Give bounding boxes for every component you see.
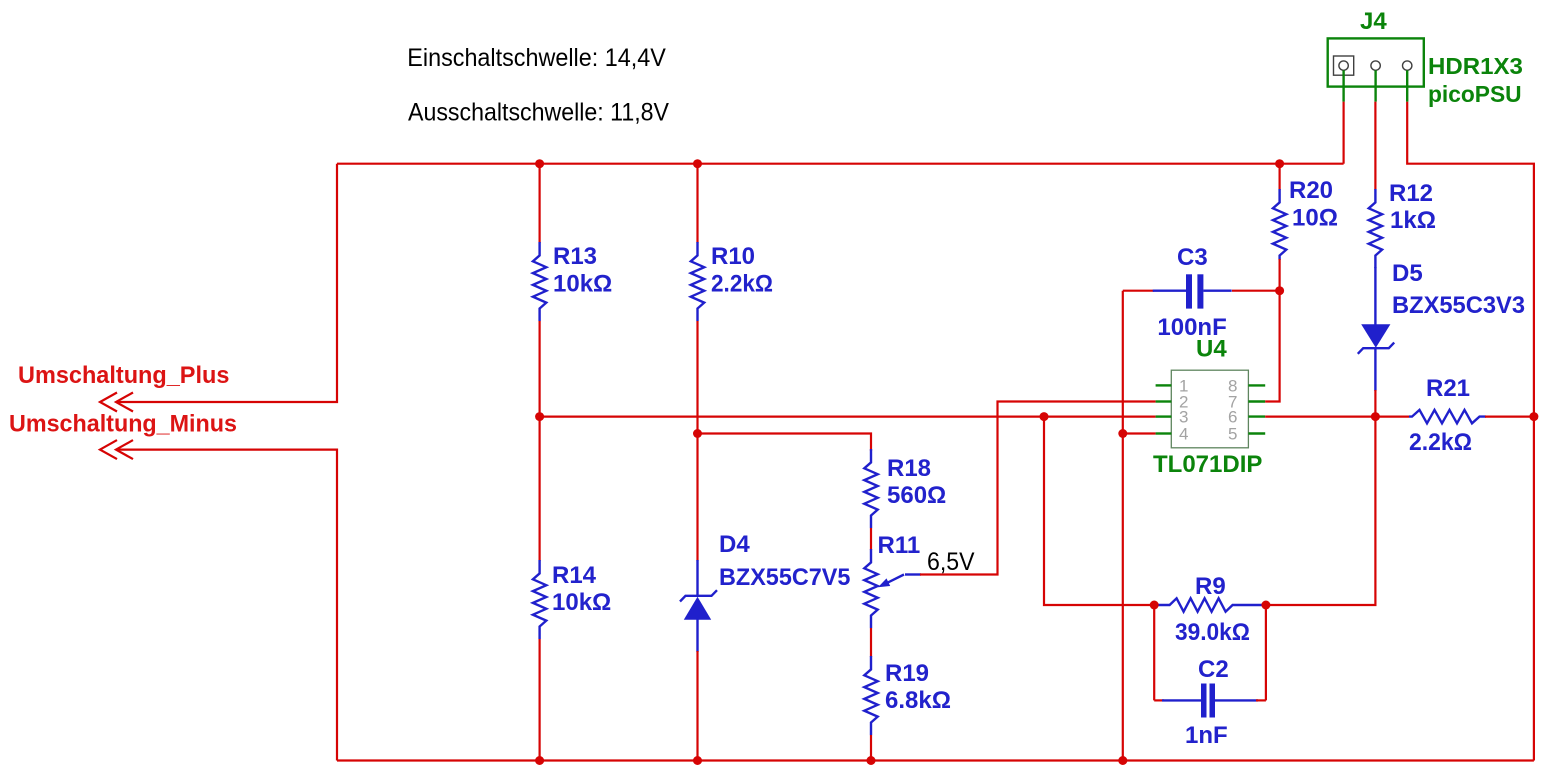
- svg-text:R19: R19: [885, 660, 929, 687]
- wire R21 left lead: [1375, 416, 1409, 418]
- pin 3: [1403, 61, 1412, 70]
- wire D5 to junction: [1374, 390, 1376, 417]
- wire J4 pin1 down: [1342, 102, 1344, 164]
- node pin3 branch: [1040, 412, 1049, 421]
- svg-text:D5: D5: [1392, 260, 1423, 287]
- wire pin3 junction to R9: [1044, 417, 1154, 605]
- pin 5: [1248, 432, 1265, 434]
- node bottom rail / R14: [535, 756, 544, 765]
- connector J4: [1328, 8, 1523, 107]
- node pin4: [1118, 429, 1127, 438]
- diode D4 zener: [680, 531, 850, 652]
- svg-text:2.2kΩ: 2.2kΩ: [1409, 429, 1472, 456]
- wire bottom rail: [337, 759, 1534, 761]
- svg-text:4: 4: [1179, 425, 1188, 444]
- resistor R20: [1273, 177, 1338, 260]
- wire C3 left vertical: [1122, 291, 1124, 761]
- wire R10 to D4: [696, 321, 698, 561]
- svg-text:R9: R9: [1195, 573, 1226, 600]
- svg-text:Umschaltung_Minus: Umschaltung_Minus: [9, 411, 237, 438]
- node Umschaltung_Plus: [18, 164, 337, 412]
- svg-text:picoPSU: picoPSU: [1428, 81, 1522, 107]
- capacitor C3: [1123, 244, 1280, 341]
- pin 3: [1156, 415, 1172, 417]
- wire R18 to R11: [870, 528, 872, 550]
- svg-text:C3: C3: [1177, 244, 1208, 271]
- resistor R14: [533, 560, 611, 639]
- wire R21 right lead: [1485, 416, 1534, 418]
- node bottom rail / R19: [867, 756, 876, 765]
- node R9 right: [1261, 601, 1270, 610]
- svg-text:R12: R12: [1389, 180, 1433, 207]
- pin 1: [1156, 384, 1172, 386]
- node bottom rail / C3 column: [1118, 756, 1127, 765]
- node top rail / R20: [1275, 159, 1284, 168]
- svg-text:Ausschaltschwelle: 11,8V: Ausschaltschwelle: 11,8V: [408, 99, 669, 127]
- node R21 right: [1529, 412, 1538, 421]
- wire Plus flag chevrons: [100, 393, 117, 412]
- pin 2: [1371, 61, 1380, 70]
- node R9 left: [1150, 601, 1159, 610]
- svg-text:2.2kΩ: 2.2kΩ: [711, 271, 773, 298]
- svg-text:10Ω: 10Ω: [1292, 205, 1338, 232]
- capacitor C2: [1154, 656, 1266, 749]
- wire R13 column top: [538, 164, 540, 243]
- node bottom rail / D4: [693, 756, 702, 765]
- wire D4-column to R18: [698, 434, 872, 452]
- wire Plus horizontal: [116, 164, 337, 402]
- svg-text:6.8kΩ: 6.8kΩ: [885, 687, 951, 714]
- svg-text:Einschaltschwelle: 14,4V: Einschaltschwelle: 14,4V: [407, 44, 666, 72]
- svg-text:6,5V: 6,5V: [927, 548, 975, 576]
- wire R13 to mid rail: [538, 321, 540, 417]
- svg-text:Umschaltung_Plus: Umschaltung_Plus: [18, 362, 229, 389]
- resistor R18: [864, 449, 946, 528]
- wire U4 pin7 to C3 node: [1265, 291, 1279, 402]
- resistor R9: [1154, 573, 1263, 646]
- resistor R10: [691, 242, 773, 321]
- wire Minus horizontal: [116, 450, 337, 761]
- node D4 / R18: [693, 429, 702, 438]
- wire Minus flag chevrons: [100, 440, 117, 459]
- wire R9 right node down: [1265, 605, 1267, 700]
- resistor R21: [1409, 375, 1486, 456]
- wire R9 right to D5 column: [1266, 417, 1376, 605]
- svg-text:39.0kΩ: 39.0kΩ: [1175, 619, 1250, 646]
- wire pin4 link: [1123, 432, 1156, 434]
- node D5 / R21 / R9: [1371, 412, 1380, 421]
- svg-text:R13: R13: [553, 243, 597, 270]
- wire wiper to U4 pin2: [920, 402, 1156, 575]
- wire right vertical: [1407, 102, 1534, 761]
- svg-text:TL071DIP: TL071DIP: [1153, 451, 1262, 478]
- wire R19 to bottom rail: [870, 735, 872, 761]
- svg-text:5: 5: [1228, 425, 1237, 444]
- wire D4 to bottom rail: [696, 651, 698, 761]
- svg-text:1kΩ: 1kΩ: [1390, 207, 1436, 234]
- resistor R19: [864, 656, 951, 735]
- pin 4: [1156, 432, 1172, 434]
- node top rail / R13: [535, 159, 544, 168]
- resistor R13: [533, 242, 612, 321]
- svg-text:R14: R14: [552, 562, 597, 589]
- wire R14 column top: [538, 417, 540, 561]
- wire R20 top: [1278, 164, 1280, 190]
- svg-text:R21: R21: [1426, 375, 1470, 402]
- svg-text:1nF: 1nF: [1185, 722, 1228, 749]
- svg-text:R18: R18: [887, 455, 931, 482]
- svg-text:10kΩ: 10kΩ: [552, 589, 611, 616]
- node Umschaltung_Minus: [9, 411, 337, 761]
- svg-text:HDR1X3: HDR1X3: [1428, 53, 1523, 79]
- wire R11 to R19: [870, 628, 872, 657]
- wire R20 bottom: [1278, 259, 1280, 291]
- svg-text:D4: D4: [719, 531, 750, 558]
- svg-text:10kΩ: 10kΩ: [553, 271, 612, 298]
- wire R10 column top: [696, 164, 698, 243]
- pin 6: [1248, 415, 1265, 417]
- pin 8: [1248, 384, 1265, 386]
- svg-text:BZX55C3V3: BZX55C3V3: [1392, 292, 1525, 319]
- svg-text:BZX55C7V5: BZX55C7V5: [719, 564, 850, 591]
- pin 7: [1248, 400, 1265, 402]
- wire mid rail to U4 pin3: [540, 416, 1156, 418]
- svg-text:R10: R10: [711, 243, 755, 270]
- node top rail / R10: [693, 159, 702, 168]
- svg-text:C2: C2: [1198, 656, 1229, 683]
- svg-text:R20: R20: [1289, 177, 1333, 204]
- diode D5 zener: [1358, 260, 1525, 391]
- wire top rail: [337, 163, 1344, 165]
- op-amp U4: [1153, 336, 1265, 479]
- node R13/R14 mid: [535, 412, 544, 421]
- svg-text:R11: R11: [878, 532, 921, 559]
- node C3 right / R20: [1275, 286, 1284, 295]
- svg-text:J4: J4: [1360, 8, 1387, 35]
- wire R9 left node down: [1153, 605, 1155, 700]
- svg-text:560Ω: 560Ω: [887, 482, 946, 509]
- resistor R12: [1369, 180, 1436, 268]
- pin 2: [1156, 400, 1172, 402]
- wire U4 pin6 to D5 node: [1265, 416, 1375, 418]
- wire J4 pin2 down: [1374, 102, 1376, 190]
- svg-text:U4: U4: [1196, 336, 1227, 363]
- potentiometer R11: [864, 532, 921, 628]
- pin 1: [1339, 61, 1348, 70]
- wire R14 to bottom rail: [538, 639, 540, 761]
